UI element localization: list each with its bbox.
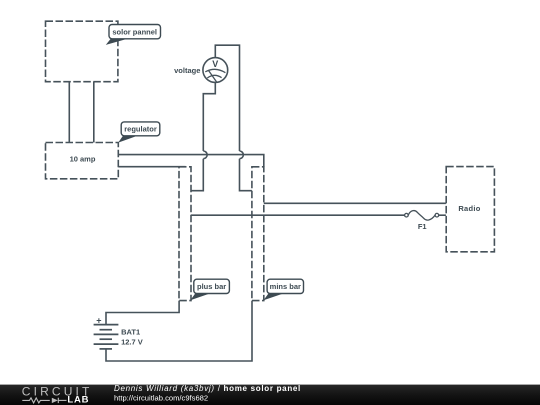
callout mins bar (264, 279, 304, 300)
svg-text:solor pannel: solor pannel (112, 27, 157, 36)
wire voltmeter bottom to plus bar (191, 82, 215, 190)
regulator box SC2 (46, 143, 119, 179)
wire plus bar to fuse F1 (191, 214, 405, 216)
callout plus bar (190, 279, 229, 300)
plus bar box SC3 (179, 167, 191, 301)
fuse F1 (405, 211, 439, 221)
radio box SC5 (446, 167, 494, 252)
wire battery minus to mins bar bottom (106, 301, 252, 361)
svg-text:+: + (96, 316, 101, 326)
wire solar panel pin1 to regulator (68, 82, 70, 143)
solar panel box SC1 (46, 21, 118, 81)
svg-text:Dennis Williard (ka3bvj) / hom: Dennis Williard (ka3bvj) / home solor pa… (114, 384, 301, 393)
svg-text:voltage: voltage (174, 66, 200, 75)
mins bar box SC4 (252, 167, 264, 301)
svg-text:regulator: regulator (124, 125, 157, 134)
callout solor pannel (106, 25, 161, 45)
svg-text:BAT1: BAT1 (121, 328, 140, 337)
svg-text:Radio: Radio (458, 204, 480, 213)
hop of voltmeter bottom wire over regulator output wire (203, 151, 207, 159)
svg-text:mins bar: mins bar (270, 282, 301, 291)
svg-text:http://circuitlab.com/c9fs682: http://circuitlab.com/c9fs682 (114, 393, 208, 402)
wire regulator output to mins bar top (118, 155, 263, 167)
voltmeter M1 (203, 58, 228, 83)
battery BAT1 plates (94, 325, 119, 349)
CircuitLab logo resistor and diode glyph (22, 398, 66, 403)
svg-text:plus bar: plus bar (197, 282, 226, 291)
wire voltmeter top to mins bar (215, 45, 252, 191)
wire mins bar to radio (upper) (264, 202, 446, 204)
wire regulator output 2 to plus bar top (118, 166, 185, 168)
svg-text:LAB: LAB (67, 395, 89, 405)
svg-text:F1: F1 (418, 222, 427, 231)
svg-text:10 amp: 10 amp (70, 154, 96, 163)
wire solar panel pin2 to regulator (93, 82, 95, 143)
hop of voltmeter top wire over regulator output wire (240, 151, 244, 159)
wire plus bar bottom to battery plus (106, 301, 179, 325)
svg-text:12.7 V: 12.7 V (121, 338, 143, 347)
svg-text:V: V (212, 59, 218, 69)
callout regulator (118, 122, 160, 143)
wire fuse F1 to radio (439, 214, 446, 216)
